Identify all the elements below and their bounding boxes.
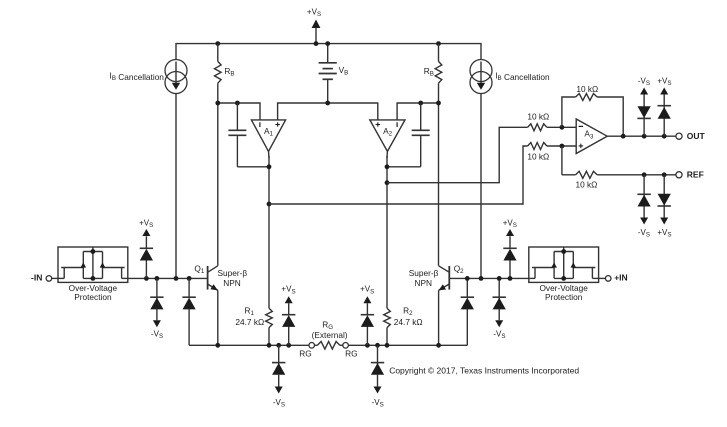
svg-text:+IN: +IN <box>614 273 627 283</box>
svg-text:NPN: NPN <box>415 278 433 288</box>
svg-text:Super-β: Super-β <box>409 268 439 278</box>
svg-text:24.7 kΩ: 24.7 kΩ <box>235 317 264 327</box>
svg-text:RG: RG <box>299 349 311 359</box>
svg-text:10 kΩ: 10 kΩ <box>576 84 598 94</box>
svg-text:REF: REF <box>687 169 704 179</box>
svg-text:Protection: Protection <box>545 292 583 302</box>
svg-text:OUT: OUT <box>687 131 706 141</box>
svg-text:(External): (External) <box>312 330 348 340</box>
svg-text:10 kΩ: 10 kΩ <box>575 180 597 190</box>
svg-text:Super-β: Super-β <box>217 268 247 278</box>
svg-text:24.7 kΩ: 24.7 kΩ <box>394 317 423 327</box>
svg-text:NPN: NPN <box>223 278 241 288</box>
svg-text:Protection: Protection <box>74 292 112 302</box>
svg-text:-IN: -IN <box>31 273 42 283</box>
svg-text:RG: RG <box>345 349 357 359</box>
svg-text:IB Cancellation: IB Cancellation <box>495 70 550 82</box>
svg-text:10 kΩ: 10 kΩ <box>527 112 549 122</box>
svg-text:Copyright © 2017, Texas Instru: Copyright © 2017, Texas Instruments Inco… <box>389 366 579 376</box>
svg-text:10 kΩ: 10 kΩ <box>527 152 549 162</box>
svg-text:IB Cancellation: IB Cancellation <box>110 70 165 82</box>
